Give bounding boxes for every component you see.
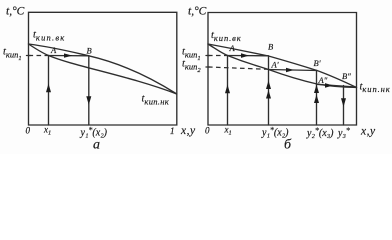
svg-text:A″: A″ <box>318 75 328 85</box>
svg-text:A′: A′ <box>271 60 279 70</box>
svg-text:B′: B′ <box>314 58 321 68</box>
tie line A'-B' with arrow panel b <box>269 70 318 71</box>
svg-text:y₂*(x₃): y₂*(x₃) <box>306 126 334 139</box>
dashed tie line t1 to A panel a <box>29 55 49 57</box>
svg-text:а: а <box>93 138 100 153</box>
svg-text:t,°C: t,°C <box>188 6 207 18</box>
tie line A''-B'' with arrow panel b <box>317 84 357 87</box>
svg-text:1: 1 <box>170 126 175 136</box>
svg-text:B: B <box>87 46 92 56</box>
vertical y2* with double up arrow panel b <box>316 71 318 126</box>
vertical y3* with down arrow panel b <box>343 86 345 126</box>
axes box panel a <box>29 12 177 125</box>
vertical x1 with up arrow panel b <box>227 56 229 126</box>
dashed tie line t1 panel b <box>208 55 228 57</box>
svg-text:A: A <box>229 43 236 53</box>
svg-text:B: B <box>268 42 273 52</box>
liquid curve panel b <box>208 44 357 88</box>
vapor (condensation) curve panel a <box>29 44 177 94</box>
tick t_kip1 panel b <box>206 55 210 57</box>
svg-text:x,y: x,y <box>360 126 376 138</box>
tie line A-B with arrow panel a <box>49 55 89 57</box>
svg-text:tкип.нк: tкип.нк <box>360 82 391 95</box>
vapor curve panel b <box>208 44 357 88</box>
vertical y1* with down arrow panel a <box>88 56 90 125</box>
svg-text:0: 0 <box>205 126 210 136</box>
tick t_kip1 panel a <box>27 55 31 57</box>
tick t_kip2 panel b <box>206 66 210 68</box>
axes box panel b <box>208 13 357 126</box>
svg-text:A: A <box>50 45 57 55</box>
svg-text:B″: B″ <box>342 71 351 81</box>
vertical y1* with double up arrow panel b <box>268 56 270 125</box>
svg-text:б: б <box>284 138 292 153</box>
vertical x1 with up arrow panel a <box>48 56 50 126</box>
tie line A-B with arrow panel b <box>228 55 269 57</box>
liquid (boiling) curve panel a <box>29 44 177 94</box>
svg-text:x,y: x,y <box>180 125 196 137</box>
svg-text:0: 0 <box>26 126 31 136</box>
dashed tie line t2 panel b <box>208 67 269 69</box>
svg-text:t,°C: t,°C <box>6 6 25 18</box>
arrowhead on tie A-B panel a <box>64 53 73 57</box>
